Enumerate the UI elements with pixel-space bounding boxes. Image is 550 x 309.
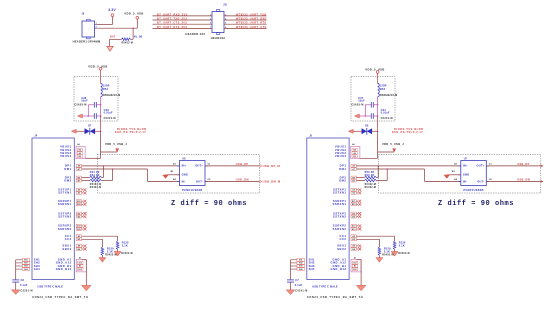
svg-text:SH1: SH1: [24, 260, 28, 262]
svg-text:BT_UART_RXD_3V3: BT_UART_RXD_3V3: [157, 13, 188, 16]
svg-text:10uF: 10uF: [358, 100, 365, 103]
svg-text:BT_UART_TXD_3V3: BT_UART_TXD_3V3: [157, 18, 187, 21]
svg-text:7: 7: [210, 27, 211, 29]
svg-text:C0201-M: C0201-M: [104, 117, 116, 120]
pin box A3 no-connect: [76, 191, 86, 194]
svg-text:PCMF1USB3B: PCMF1USB3B: [463, 189, 483, 192]
connector left-side pin names SH1-SH4: [309, 258, 315, 271]
pin box A5 CC1: [76, 235, 81, 238]
pin box B2 no-connect: [351, 212, 361, 215]
svg-text:6: 6: [225, 23, 226, 25]
pin box A3 no-connect: [351, 191, 361, 194]
pin box A7 DM1: [76, 168, 81, 171]
connector J4 USB Type C: [32, 135, 74, 280]
svg-text:PCMF1USB3B: PCMF1USB3B: [182, 189, 202, 192]
pin stack A12 B1 B12 GND: [351, 260, 361, 272]
wire DM2 up to DM1: [386, 169, 389, 181]
IC GND wire and ground triangle: [162, 175, 179, 179]
label DIODE TVS BLDR: [392, 127, 424, 134]
wire cap to cap: [364, 105, 367, 116]
pin box B11 no-connect: [76, 200, 86, 203]
svg-text:2: 2: [96, 27, 97, 29]
svg-text:3.3V: 3.3V: [108, 8, 116, 12]
ground arrow in filter box: [355, 114, 360, 118]
svg-text:Z diff = 90 ohms: Z diff = 90 ohms: [171, 200, 247, 208]
pin box A11 no-connect: [76, 224, 86, 227]
off-page connector USB_DP (cropped): [540, 164, 542, 167]
pin box A8 no-connect: [351, 244, 361, 247]
wire J10 pin 1 net BT_UART_RXD_3V3: [153, 13, 213, 16]
svg-text:B1: B1: [79, 266, 81, 268]
svg-text:USB TYPE C MALE: USB TYPE C MALE: [38, 285, 64, 288]
off-page connector USB_DM (cropped): [540, 180, 542, 183]
pin stack B4 A9 B9 VBUS: [351, 146, 360, 158]
capacitor C8 0.1uF shield: [12, 279, 33, 293]
IC pin numbers: [171, 162, 211, 181]
wire header pin1 to 3.3V: [97, 23, 112, 26]
svg-text:C0603-M: C0603-M: [351, 104, 363, 107]
pin stack B4 A9 B9 VBUS: [76, 146, 85, 158]
wire OUT+ net USB_DP (left): [205, 162, 260, 166]
ground arrow connector GND: [82, 285, 91, 290]
wire VBUS to connector pins: [85, 157, 101, 160]
svg-text:5.1K: 5.1K: [399, 244, 405, 247]
svg-text:1: 1: [210, 14, 211, 16]
wire VBUS vertical: [376, 116, 379, 131]
TVS diode D7: [76, 124, 100, 134]
pin box A8 no-connect: [76, 244, 86, 247]
svg-text:5.1K: 5.1K: [384, 250, 390, 253]
pin box B10 no-connect: [351, 203, 361, 206]
pin box B7 DM2: [76, 179, 81, 182]
ground arrow CC1: [114, 252, 121, 257]
ground symbol below header: [107, 39, 114, 51]
wire DM2 up to DM1: [111, 169, 114, 181]
svg-text:FB4: FB4: [103, 88, 109, 91]
wire DM1: [82, 169, 180, 181]
wire DP2 up to DP1: [377, 166, 380, 178]
wire DP2 up to DP1: [102, 166, 105, 178]
svg-text:B9: B9: [353, 156, 355, 158]
svg-text:WT8533_UART_RXD: WT8533_UART_RXD: [236, 18, 267, 21]
resistor R126 5.1K CC1 pulldown: [356, 236, 409, 255]
wire VBUS down: [99, 131, 102, 158]
pin box A10 no-connect: [76, 228, 86, 231]
svg-text:SH3: SH3: [24, 266, 28, 268]
ferrite bead FB4 120R: [101, 83, 121, 97]
svg-text:R59 0R: R59 0R: [365, 171, 375, 174]
ground arrow CC2: [99, 258, 106, 263]
svg-text:C8: C8: [21, 279, 25, 282]
power symbol VDD_5_USB (left): [88, 64, 107, 83]
pin box A6 DP1: [351, 165, 356, 168]
svg-text:BT_UART_RTS_3V3: BT_UART_RTS_3V3: [157, 26, 187, 29]
pin box A7 DM1: [351, 168, 356, 171]
ferrite bead FB3 120R: [378, 83, 398, 97]
wire DP1 to IC IN+: [356, 164, 460, 167]
resistor R60 0R: [356, 174, 387, 189]
wire DP1 to IC IN+: [82, 164, 180, 167]
svg-text:BT_UART_CTS_3V3: BT_UART_CTS_3V3: [157, 22, 187, 25]
svg-text:SH2: SH2: [24, 263, 28, 265]
wire OUT- net USB_DM (left): [205, 178, 260, 182]
ground arrow in filter box: [78, 114, 83, 118]
svg-text:0.1uF: 0.1uF: [295, 284, 303, 287]
svg-text:Z diff = 90 ohms: Z diff = 90 ohms: [438, 200, 514, 208]
svg-text:CON24_USB_TYPEC_RA_SMT_TH: CON24_USB_TYPEC_RA_SMT_TH: [32, 296, 88, 299]
ground arrow CC2: [376, 258, 383, 263]
junction DM1/DM2: [112, 168, 114, 170]
pin box A11 no-connect: [351, 224, 361, 227]
resistor R1 0R: [110, 38, 134, 45]
wire J10 pin 5 net BT_UART_CTS_3V3: [153, 22, 213, 25]
junction caps bottom: [88, 115, 90, 117]
wire OUT+ net USB_DP (right): [486, 162, 543, 166]
connector J10 header 4x2: [212, 5, 228, 35]
resistor R129 5.1K CC2 pulldown: [356, 239, 393, 257]
connector J6 2-pin header: [82, 13, 98, 39]
svg-text:C0603-M: C0603-M: [74, 104, 86, 107]
off-page connector USB_DM_M: [260, 180, 281, 184]
wire ferrite to caps: [376, 97, 379, 116]
label DIODE TVS BLDR: [115, 127, 147, 134]
wire DM1: [356, 169, 460, 181]
junction on VDD wire: [132, 27, 134, 29]
svg-text:0.01uF: 0.01uF: [381, 112, 390, 115]
wire J10 pin 2 net WT8533_UART_TXD: [224, 13, 267, 16]
pin box A2 no-connect: [76, 188, 86, 191]
wire GND pins to ground: [82, 260, 87, 286]
pin box B6 DP2: [76, 176, 81, 179]
wire J10 pin 8 net WT8533_UART_CTS: [224, 26, 267, 29]
wire J10 pin 7 net BT_UART_RTS_3V3: [153, 26, 213, 29]
svg-text:3: 3: [210, 18, 211, 20]
power tap VDD_5_USB_J: [378, 142, 405, 152]
wire GND pins to ground: [356, 260, 361, 286]
svg-text:WT8533_UART_RTS: WT8533_UART_RTS: [236, 22, 266, 25]
wire ferrite to caps: [99, 97, 102, 116]
svg-text:FB3: FB3: [380, 88, 386, 91]
wire junction down to resistor: [132, 28, 135, 39]
wire shield to cap: [14, 260, 17, 280]
ground arrow shield: [286, 290, 295, 295]
wire J10 pin 4 net WT8533_UART_RXD: [224, 17, 267, 20]
svg-text:C7: C7: [295, 279, 299, 282]
svg-text:0.1uF: 0.1uF: [20, 284, 28, 287]
connector left-side pin names SH1-SH4: [34, 258, 40, 271]
junction DP1/DP2: [377, 165, 379, 167]
wire VBUS to connector pins: [360, 157, 378, 160]
svg-text:SH1: SH1: [299, 260, 303, 262]
svg-text:5.1K: 5.1K: [122, 244, 128, 247]
svg-text:R62 0R: R62 0R: [90, 174, 100, 177]
common-mode filter dashed box (left): [97, 155, 259, 194]
wire J10 pin 6 net WT8533_UART_RTS: [224, 22, 267, 25]
pin boxes SH1-SH4 shield: [291, 258, 305, 270]
svg-text:R126: R126: [399, 241, 406, 244]
ground arrow CC1: [391, 252, 398, 257]
junction DP1/DP2: [103, 165, 105, 167]
svg-text:5: 5: [210, 23, 211, 25]
resistor R62 0R: [82, 174, 113, 189]
pin box A5 CC1: [351, 235, 356, 238]
pin boxes SH1-SH4 shield: [16, 258, 30, 270]
capacitor C34 0.01uF: [359, 109, 393, 120]
svg-text:R60 0R: R60 0R: [365, 174, 375, 177]
svg-text:1: 1: [96, 23, 97, 25]
IC U8 PCMF1USB3B: [177, 157, 208, 192]
svg-text:2: 2: [225, 14, 226, 16]
wire OUT- net USB_DM (right): [486, 178, 543, 182]
svg-text:BAT: BAT: [110, 35, 116, 38]
power symbol VDD_5_USB (right): [365, 68, 384, 84]
pin box A10 no-connect: [351, 228, 361, 231]
off-page connector USB_DP_M: [260, 164, 281, 168]
pin box A2 no-connect: [351, 188, 361, 191]
pin box B5 CC2: [351, 238, 356, 241]
pin box B6 DP2: [351, 176, 356, 179]
svg-text:C0201-M: C0201-M: [21, 290, 33, 293]
junction at cap C top: [100, 104, 102, 106]
IC pin numbers: [452, 162, 492, 181]
power filter dashed box (left): [74, 77, 118, 121]
svg-text:C0201-M: C0201-M: [381, 117, 393, 120]
svg-text:C0201-M: C0201-M: [295, 290, 307, 293]
connector J5 USB Type C: [307, 135, 349, 280]
pin stack A12 B1 B12 GND: [76, 260, 86, 272]
ground arrow shield: [11, 290, 20, 295]
capacitor C7 0.1uF shield: [287, 279, 308, 293]
svg-text:B9: B9: [79, 156, 81, 158]
svg-text:USB TYPE C MALE: USB TYPE C MALE: [312, 285, 338, 288]
ground arrow connector GND: [356, 285, 365, 290]
wire VBUS vertical: [99, 116, 102, 131]
power symbol VDD_5_USB top: [124, 11, 143, 28]
pin box B3 no-connect: [76, 215, 86, 218]
connector right-side pin names: [330, 145, 346, 271]
wire VBUS down: [376, 131, 379, 158]
wire shield to cap: [289, 260, 292, 280]
pin box B8 no-connect: [76, 248, 86, 251]
svg-text:B12: B12: [353, 269, 356, 271]
capacitor C39 0.01uF: [82, 109, 116, 120]
junction TVS to VBUS: [377, 131, 379, 133]
svg-text:B1: B1: [354, 266, 356, 268]
svg-text:SH3: SH3: [299, 266, 303, 268]
wire cap to cap: [87, 105, 90, 116]
svg-text:10uF: 10uF: [81, 100, 88, 103]
svg-text:CON24_USB_TYPEC_RA_SMT_TH: CON24_USB_TYPEC_RA_SMT_TH: [307, 296, 363, 299]
svg-text:R129: R129: [384, 247, 391, 250]
ground arrow left of TVS: [71, 129, 76, 133]
svg-text:SH2: SH2: [299, 263, 303, 265]
resistor R61 0R: [82, 171, 104, 186]
svg-text:120R: 120R: [103, 85, 110, 88]
resistor R120 5.1K CC1 pulldown: [82, 236, 133, 255]
power tap VDD_5_USB_J: [101, 142, 128, 152]
svg-text:R139: R139: [107, 247, 114, 250]
svg-text:8: 8: [225, 27, 226, 29]
power filter dashed box (right): [351, 77, 395, 121]
resistor R59 0R: [356, 171, 378, 186]
svg-text:ESD_PG-TSLP-2-17: ESD_PG-TSLP-2-17: [392, 131, 423, 134]
svg-text:120R: 120R: [380, 85, 387, 88]
pin box B2 no-connect: [76, 212, 86, 215]
svg-text:B12: B12: [79, 269, 82, 271]
svg-text:5.1K: 5.1K: [107, 250, 113, 253]
capacitor C37 10uF: [351, 97, 377, 108]
common-mode filter dashed box (right): [379, 155, 541, 194]
svg-text:R120: R120: [122, 241, 129, 244]
svg-text:0.01uF: 0.01uF: [104, 112, 113, 115]
IC U7 PCMF1USB3B: [458, 157, 489, 192]
pin box A6 DP1: [76, 165, 81, 168]
svg-text:NL_0B: NL_0B: [134, 35, 143, 38]
ground arrow left of TVS: [348, 129, 353, 133]
wire J10 pin 3 net BT_UART_TXD_3V3: [153, 18, 213, 21]
pin box B11 no-connect: [351, 200, 361, 203]
junction DM1/DM2: [386, 168, 388, 170]
pin box B3 no-connect: [351, 215, 361, 218]
junction TVS to VBUS: [100, 131, 102, 133]
connector right-side pin names: [56, 145, 72, 271]
svg-text:ESD_PG-TSLP-2-17: ESD_PG-TSLP-2-17: [115, 131, 146, 134]
svg-text:R61 0R: R61 0R: [90, 171, 100, 174]
junction caps bottom: [365, 115, 367, 117]
pin box B8 no-connect: [351, 248, 361, 251]
TVS diode D6: [353, 124, 377, 134]
junction at cap C top: [377, 104, 379, 106]
svg-text:FBMH3216-M: FBMH3216-M: [103, 94, 121, 97]
pin box B7 DM2: [351, 179, 356, 182]
svg-text:WT8533_UART_TXD: WT8533_UART_TXD: [236, 13, 266, 16]
pin box B5 CC2: [76, 238, 81, 241]
IC GND wire and ground triangle: [444, 175, 461, 179]
resistor R139 5.1K CC2 pulldown: [82, 239, 117, 257]
power symbol 3.3V: [108, 8, 116, 25]
svg-text:WT8533_UART_CTS: WT8533_UART_CTS: [236, 26, 266, 29]
capacitor C38 10uF: [74, 97, 100, 108]
pin box B10 no-connect: [76, 203, 86, 206]
wire header pin2 to VDD_5_USB: [97, 27, 137, 30]
svg-text:FBMH3216-M: FBMH3216-M: [380, 94, 398, 97]
